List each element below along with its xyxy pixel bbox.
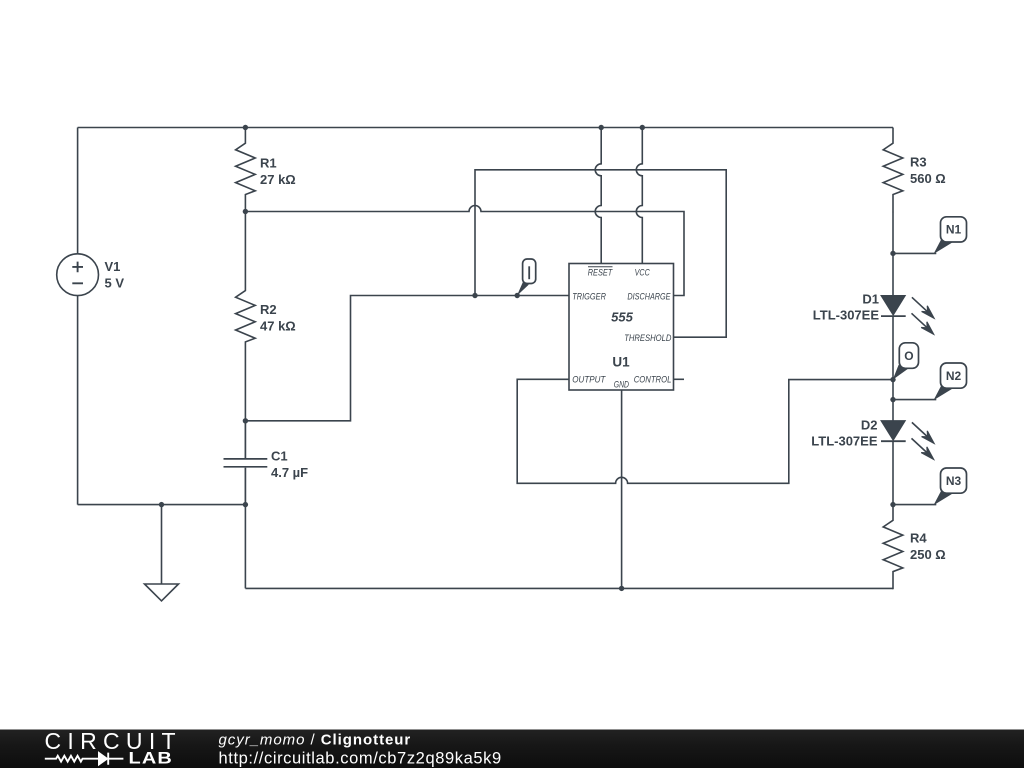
svg-text:LAB: LAB — [129, 749, 174, 768]
svg-text:C1: C1 — [271, 449, 288, 464]
svg-text:OUTPUT: OUTPUT — [572, 375, 606, 385]
wire V1 bottom lead down left side — [77, 296, 79, 505]
node N1 flag — [934, 217, 967, 254]
svg-text:CONTROL: CONTROL — [634, 375, 672, 385]
wire R1R2 junction to discharge column (hop over x475) — [245, 206, 684, 296]
svg-text:N3: N3 — [946, 474, 962, 488]
node junction N2 — [890, 397, 895, 402]
svg-text:D1: D1 — [862, 292, 879, 307]
node junction GND bottom rail — [619, 586, 624, 591]
wire GND pin to bottom rail — [621, 390, 623, 588]
wire R2C1 junction to TRIGGER pin — [245, 296, 569, 421]
wire O node to N2 node — [892, 380, 894, 400]
node junction O — [890, 377, 895, 382]
svg-text:4.7 µF: 4.7 µF — [271, 465, 308, 480]
node N2 flag — [934, 363, 967, 400]
voltage source V1 — [57, 254, 99, 296]
resistor R2 — [236, 212, 256, 421]
svg-text:R3: R3 — [910, 155, 927, 170]
logo doodle resistor and diode — [45, 753, 124, 765]
node junction RESET rail — [599, 125, 604, 130]
resistor R1 — [236, 128, 256, 213]
svg-text:LTL-307EE: LTL-307EE — [813, 308, 880, 323]
svg-text:47 kΩ: 47 kΩ — [260, 319, 296, 334]
svg-text:R1: R1 — [260, 155, 277, 170]
node junction N1 — [890, 251, 895, 256]
node junction R2-C1 — [243, 418, 248, 423]
svg-text:GND: GND — [614, 379, 629, 389]
node N3 flag — [934, 468, 967, 505]
wire top supply rail — [78, 127, 893, 129]
node junction trigger link — [472, 293, 477, 298]
wire N2 tap — [893, 399, 936, 401]
svg-text:VCC: VCC — [635, 267, 650, 277]
svg-text:V1: V1 — [105, 259, 121, 274]
wire N1 tap — [893, 252, 936, 254]
svg-text:D2: D2 — [861, 418, 878, 433]
wire VCC pin to top rail (hops left) — [636, 128, 642, 264]
resistor R3 — [883, 128, 903, 213]
svg-text:DISCHARGE: DISCHARGE — [627, 291, 671, 301]
capacitor C1 — [224, 421, 268, 505]
svg-text:R4: R4 — [910, 531, 927, 546]
svg-text:5 V: 5 V — [105, 276, 125, 291]
svg-text:27 kΩ: 27 kΩ — [260, 172, 296, 187]
node O flag — [893, 343, 919, 380]
wire R3 bottom lead to N1 node — [892, 212, 894, 254]
svg-text:gcyr_momo / Clignotteur: gcyr_momo / Clignotteur — [219, 732, 412, 749]
wire V1 top lead — [77, 128, 79, 254]
resistor R4 — [883, 505, 903, 590]
wire C1 bottom to bottom rail — [244, 505, 246, 589]
svg-text:R2: R2 — [260, 302, 277, 317]
svg-text:250 Ω: 250 Ω — [910, 547, 946, 562]
ground — [145, 505, 179, 601]
LED D1 — [881, 296, 934, 334]
svg-text:O: O — [904, 349, 913, 363]
svg-text:http://circuitlab.com/cb7z2q89: http://circuitlab.com/cb7z2q89ka5k9 — [219, 750, 502, 768]
svg-text:560 Ω: 560 Ω — [910, 171, 946, 186]
svg-text:THRESHOLD: THRESHOLD — [624, 333, 671, 343]
wire N1 node to D1 anode — [892, 253, 894, 295]
node junction C1 bottom — [243, 502, 248, 507]
wire RESET pin to top rail (hops left) — [595, 128, 601, 264]
node junction ground stem — [159, 502, 164, 507]
node I flag — [517, 259, 536, 296]
wire ground rail — [78, 504, 246, 506]
wire N3 tap — [893, 504, 936, 506]
LED D2 — [881, 421, 934, 459]
svg-text:RESET: RESET — [588, 267, 614, 277]
op-amp U1 (555 timer box) — [569, 264, 674, 391]
svg-text:LTL-307EE: LTL-307EE — [811, 434, 878, 449]
node junction N3 — [890, 502, 895, 507]
wire D1 cathode to O node — [892, 316, 894, 380]
node junction I flag — [515, 293, 520, 298]
svg-text:555: 555 — [611, 309, 633, 324]
svg-text:U1: U1 — [612, 355, 630, 370]
wire CONTROL stub — [674, 378, 685, 380]
wire bottom rail — [245, 587, 893, 589]
wire D2 cathode to N3 node — [892, 441, 894, 504]
svg-text:N1: N1 — [946, 223, 962, 237]
svg-text:TRIGGER: TRIGGER — [572, 291, 606, 301]
node junction VCC rail — [640, 125, 645, 130]
svg-text:N2: N2 — [946, 369, 962, 383]
wire trigger-threshold link — [475, 170, 726, 337]
wire N2 node to D2 anode — [892, 400, 894, 421]
node junction R1-R2 — [243, 209, 248, 214]
node junction R1 top — [243, 125, 248, 130]
wire OUTPUT routing to LED chain (hop over gnd column) — [517, 379, 893, 483]
